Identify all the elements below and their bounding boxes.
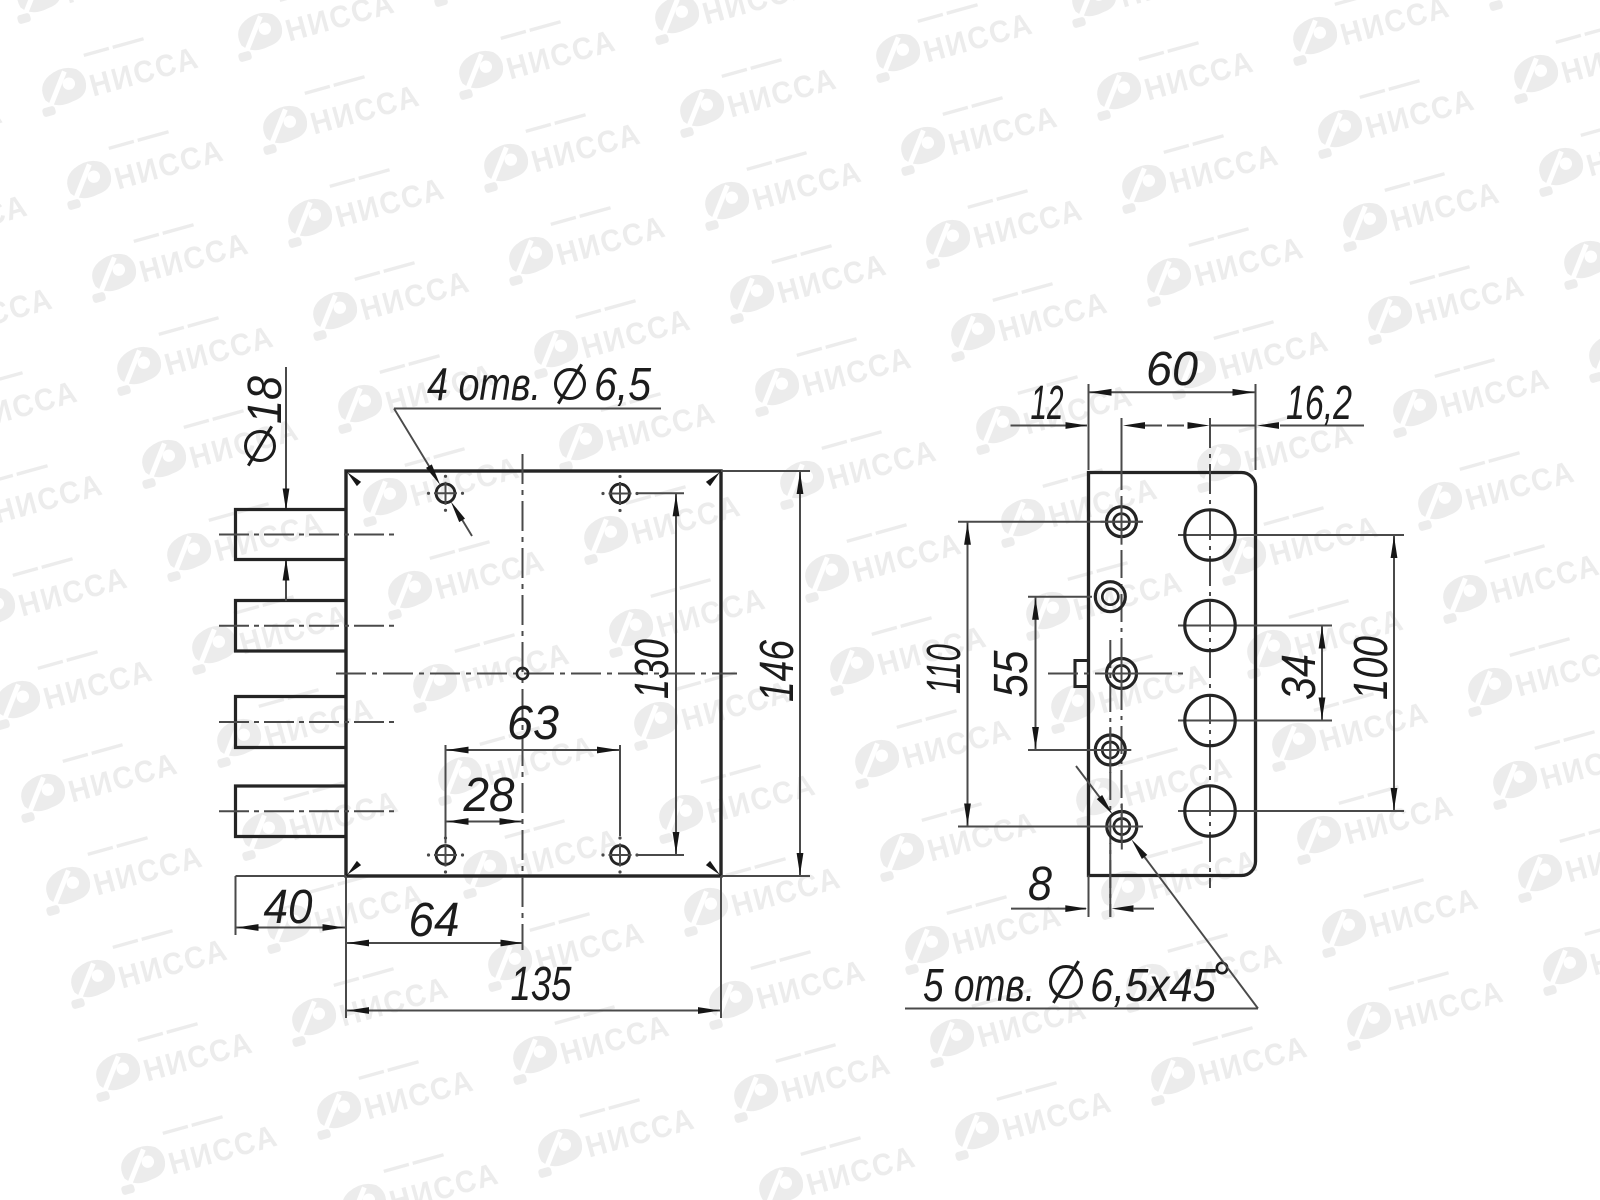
label underline xyxy=(905,1008,1258,1010)
dim line 40 xyxy=(236,927,346,929)
countersunk hole 3 xyxy=(1101,651,1143,697)
svg-text:4 отв.: 4 отв. xyxy=(427,358,541,410)
centerline tab 3 xyxy=(219,721,396,723)
hole top-left (6.5) xyxy=(427,475,464,512)
dim 16,2 arrow left xyxy=(1257,422,1279,429)
ext line big hole 4 / 100 bottom xyxy=(1178,810,1404,812)
horizontal centerline right view xyxy=(1048,673,1186,675)
leader arrow upper xyxy=(1097,795,1113,815)
label Ø6,5 diameter symbol xyxy=(556,370,585,399)
ext line 110 top xyxy=(958,521,1143,523)
dim line between xyxy=(1210,425,1256,427)
hole bottom-left (6.5) xyxy=(427,836,464,873)
leader arrow lower xyxy=(451,502,465,523)
big hole 2 (Ø18 bolt hole) xyxy=(1185,600,1235,650)
ext line 63 right xyxy=(619,745,621,836)
ext line 64/135 left xyxy=(345,876,347,1018)
ext line 40 left xyxy=(235,876,237,935)
svg-text:63: 63 xyxy=(507,697,559,750)
ext line 60 right xyxy=(1255,384,1257,470)
centerline hole column A (12mm) xyxy=(1121,418,1123,845)
centerline hole column B (8mm) xyxy=(1109,640,1111,917)
countersunk hole 4 xyxy=(1089,727,1131,773)
svg-text:28: 28 xyxy=(463,769,515,822)
latch tab on left edge xyxy=(1075,661,1089,687)
dim Ø18 arrow up xyxy=(283,559,290,581)
corner arrow bottom-right xyxy=(706,861,720,875)
countersunk hole 5 xyxy=(1101,804,1143,850)
ext line 130 bottom xyxy=(636,854,684,856)
ext line column A top xyxy=(1121,418,1123,470)
big hole 1 (Ø18 bolt hole) xyxy=(1185,510,1235,560)
bolt tab 3 xyxy=(236,697,347,748)
dim 8 arrow right xyxy=(1065,905,1087,912)
hole bottom-right (6.5) xyxy=(601,836,638,873)
dim line 135 xyxy=(346,1010,721,1012)
centerline tab 2 xyxy=(219,625,396,627)
svg-text:110: 110 xyxy=(918,644,971,694)
degree symbol xyxy=(1217,963,1227,973)
dim line 146 xyxy=(799,471,801,876)
hole 2 xyxy=(1095,582,1125,612)
big hole 4 (Ø18 bolt hole) xyxy=(1185,786,1235,836)
bolt tab 1 xyxy=(236,510,347,560)
center hole xyxy=(517,668,528,679)
svg-text:40: 40 xyxy=(264,881,313,934)
dim Ø18 leader line xyxy=(285,367,287,508)
svg-text:146: 146 xyxy=(751,640,804,702)
dim line 63 xyxy=(446,749,621,751)
svg-text:34: 34 xyxy=(1273,654,1326,700)
ext line 146 bottom xyxy=(721,875,810,877)
label Ø symbol xyxy=(1051,967,1082,998)
dim Ø18 arrow down xyxy=(283,489,290,511)
dim line 55 xyxy=(1035,597,1037,750)
dim line middle dashes xyxy=(1145,425,1186,427)
ext line 110 bottom xyxy=(958,826,1143,828)
dim 16,2 arrow right xyxy=(1188,422,1210,429)
dim line 110 xyxy=(967,522,969,827)
svg-text:100: 100 xyxy=(1345,636,1398,700)
left view: lock body outline xyxy=(346,471,721,876)
svg-text:16,2: 16,2 xyxy=(1286,377,1352,430)
svg-text:130: 130 xyxy=(626,639,679,699)
leader arrow lower xyxy=(1131,839,1147,859)
label underline xyxy=(394,408,661,410)
ext line big hole 3 / 34 bottom xyxy=(1178,720,1332,722)
ext line 60 left xyxy=(1088,384,1090,470)
dim 12 arrow right xyxy=(1066,422,1088,429)
centerline big hole column xyxy=(1209,418,1211,888)
bolt tab 4 xyxy=(236,786,347,837)
dim line 100 xyxy=(1393,535,1395,811)
big hole 3 (Ø18 bolt hole) xyxy=(1185,695,1235,745)
dim line 60 xyxy=(1089,391,1256,393)
svg-text:12: 12 xyxy=(1031,377,1064,430)
ext line 55 bottom xyxy=(1028,749,1130,751)
dim line 64 xyxy=(346,942,524,944)
dim 12 arrow left xyxy=(1123,422,1145,429)
svg-text:6,5х45: 6,5х45 xyxy=(1090,959,1216,1011)
hole top-right (6.5) xyxy=(601,475,638,512)
dim line 130 xyxy=(675,493,677,855)
leader to hole top-left xyxy=(394,409,432,472)
ext line 146 top xyxy=(721,470,810,472)
dim line 16,2 right part xyxy=(1280,425,1364,427)
right view: face plate outline xyxy=(1089,473,1256,876)
svg-text:135: 135 xyxy=(511,958,572,1011)
svg-text:5 отв.: 5 отв. xyxy=(923,959,1035,1011)
countersunk hole 1 xyxy=(1101,499,1143,545)
svg-text:64: 64 xyxy=(409,894,460,947)
ext line 8 left xyxy=(1088,876,1090,918)
dim line 34 xyxy=(1321,626,1323,721)
ext line 135 right xyxy=(720,876,722,1018)
ext line big hole 1 / 100 top xyxy=(1178,534,1404,536)
vertical centerline left view xyxy=(522,454,524,950)
ext of bottom edge to left xyxy=(236,875,347,877)
leader arrow upper xyxy=(426,464,440,485)
svg-text:55: 55 xyxy=(985,650,1038,697)
dim 8 arrow left xyxy=(1112,905,1134,912)
dim line 8 left part xyxy=(1011,908,1086,910)
corner arrow bottom-left xyxy=(347,861,361,875)
horizontal centerline left view xyxy=(336,673,737,675)
ext line 130 top xyxy=(636,492,684,494)
ext line big hole 2 / 34 top xyxy=(1178,625,1332,627)
svg-text:18: 18 xyxy=(239,376,292,424)
dim line 8 right part xyxy=(1133,908,1154,910)
bolt tab 2 xyxy=(236,601,347,652)
corner arrow top-right xyxy=(706,472,720,486)
dim line 28 xyxy=(446,821,523,823)
dim Ø18 diameter symbol xyxy=(246,432,275,461)
corner arrow top-left xyxy=(347,472,361,486)
centerline tab 4 xyxy=(219,810,396,812)
dim line 12 left part xyxy=(1011,425,1088,427)
svg-text:6,5: 6,5 xyxy=(594,358,651,410)
ext line 8 right xyxy=(1109,843,1111,917)
svg-text:60: 60 xyxy=(1146,343,1198,396)
leader to countersunk hole 5 xyxy=(1140,851,1258,1009)
ext line 55 top xyxy=(1028,596,1092,598)
leader tail upper xyxy=(1076,766,1104,803)
leader tail lower xyxy=(455,508,472,536)
ext line 63 left xyxy=(445,745,447,843)
centerline tab 1 xyxy=(219,534,396,536)
svg-text:8: 8 xyxy=(1028,858,1052,911)
dim Ø18 text xyxy=(239,376,292,424)
